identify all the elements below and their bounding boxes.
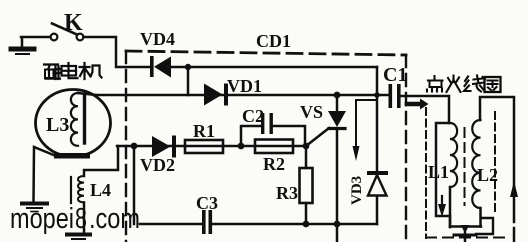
svg-text:R2: R2: [263, 154, 285, 174]
watermark mopei8.com: [10, 203, 140, 235]
spark gap: [513, 228, 516, 242]
wire common to ground: [464, 227, 467, 242]
wire junction down to C3 rail: [133, 146, 136, 224]
resistor R1: [185, 140, 223, 153]
wire L4 to ground: [83, 202, 86, 233]
inductor L4: [78, 176, 84, 202]
label 点火线圈 (hand-drawn glyphs): [427, 76, 501, 93]
wire junction down to VD1 rail: [187, 67, 190, 95]
wire rail to L4: [84, 146, 118, 176]
svg-text:R1: R1: [193, 121, 215, 141]
capacitor C3: [202, 210, 212, 234]
rail VD1 (top): [96, 94, 389, 97]
CD1 dashed box border (left): [125, 51, 127, 242]
svg-text:L3: L3: [46, 114, 69, 136]
diode VD2 (cathode right): [152, 136, 176, 158]
diode VD1 (cathode right): [204, 84, 228, 106]
wire common bottom: [450, 225, 481, 228]
ignition coil dashed box (right): [494, 112, 496, 215]
svg-text:VS: VS: [300, 102, 323, 122]
svg-text:CD1: CD1: [256, 31, 291, 51]
core dashes between coils: [464, 128, 466, 205]
wire primary left: [436, 123, 450, 227]
svg-text:8: 8: [75, 203, 87, 235]
node VS anode on rail: [334, 92, 341, 99]
wire VD4 rail to VD3 drop: [187, 66, 377, 69]
node junction at L3/L4 rail: [131, 143, 138, 150]
svg-text:mopei: mopei: [10, 203, 74, 235]
svg-text:L4: L4: [90, 180, 111, 200]
svg-text:.com: .com: [89, 203, 140, 235]
current arrow (up, HV): [510, 181, 518, 197]
ground (ignition coil): [454, 234, 476, 237]
current arrow (right, after C1): [407, 99, 429, 110]
svg-text:K: K: [64, 10, 83, 36]
ignition coil dashed box (left): [425, 108, 427, 238]
resistor R3: [305, 146, 308, 168]
点: [428, 76, 443, 81]
magneto circle: [36, 90, 111, 157]
svg-text:VD4: VD4: [140, 29, 175, 49]
svg-text:VD3: VD3: [349, 176, 365, 205]
current arrow (down, near VD3): [353, 100, 378, 161]
node VD3 on VD1 rail: [374, 92, 380, 98]
switch K: [51, 24, 84, 41]
node VS cathode on bottom rail: [334, 221, 341, 228]
机: [80, 63, 90, 79]
wire switch to VD4: [84, 37, 151, 67]
圈: [485, 77, 501, 92]
thyristor VS: [328, 95, 346, 242]
node C2/R2 left junction: [238, 143, 245, 150]
diode VD3 (zener, cathode top): [367, 67, 388, 224]
svg-text:C1: C1: [383, 64, 407, 86]
wire L3 top to rail: [78, 93, 96, 95]
inductor L3 (inside magneto): [71, 93, 78, 146]
wire L2 top to HV line: [480, 97, 514, 222]
resistor R2: [255, 140, 293, 154]
secondary terminal box: [476, 218, 493, 234]
svg-text:VD2: VD2: [140, 155, 175, 175]
label 磁电机 (hand-drawn glyphs): [44, 63, 102, 79]
CD1 dashed box border (top): [126, 51, 406, 55]
CD1 dashed box border (right): [405, 55, 407, 242]
capacitor C2 branch: [241, 126, 261, 146]
wire ground to switch: [21, 36, 50, 39]
电: [67, 63, 69, 76]
node common junction (arrow): [461, 225, 470, 233]
inductor L2 (secondary): [472, 120, 480, 208]
wire L2 bottom: [479, 208, 482, 227]
L4 core bar: [70, 177, 72, 203]
magneto frame bar: [54, 153, 90, 159]
capacitor C1: [389, 84, 450, 123]
ignition coil dashed box (bottom): [426, 237, 504, 239]
svg-text:L2: L2: [477, 165, 498, 185]
ground (magneto): [22, 204, 47, 212]
svg-text:R3: R3: [276, 183, 298, 203]
svg-text:C2: C2: [242, 106, 264, 126]
wire frame to ground: [34, 147, 57, 202]
current arrow (down, primary): [441, 196, 443, 206]
wire gate to VS: [306, 128, 329, 146]
node VD4 junction: [185, 64, 191, 70]
火: [447, 76, 461, 93]
node gate junction: [303, 143, 310, 150]
svg-text:C3: C3: [196, 193, 218, 213]
inductor L1 (primary): [450, 123, 457, 187]
线: [464, 77, 471, 92]
svg-text:L1: L1: [428, 162, 449, 182]
svg-text:VD1: VD1: [227, 76, 262, 96]
node R3 bottom: [303, 221, 310, 228]
rail VD2/gate (middle): [117, 145, 305, 148]
磁: [44, 65, 58, 70]
L3 core bar: [83, 96, 86, 143]
ground (L4): [67, 235, 90, 240]
diode VD4 (cathode left): [150, 56, 187, 78]
ground (top-left): [11, 38, 34, 54]
bottom rail: [140, 223, 203, 226]
